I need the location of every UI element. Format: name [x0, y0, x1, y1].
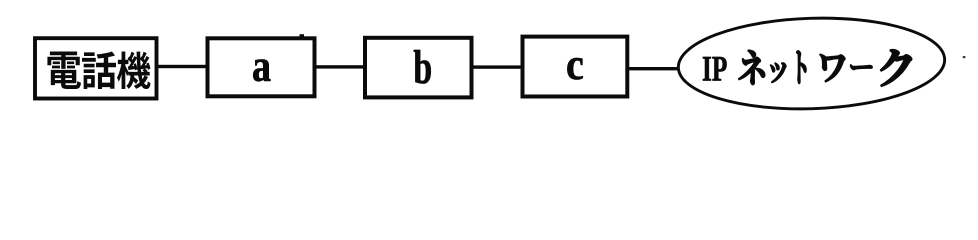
label a: [252, 42, 271, 92]
svg-text:a: a: [252, 42, 271, 92]
scan bump on box a top edge: [300, 34, 305, 37]
wire: telephone to a: [155, 65, 209, 68]
box b: [365, 38, 472, 98]
label c: [566, 40, 584, 90]
svg-text:c: c: [566, 40, 584, 90]
label text IP: [702, 48, 727, 88]
label text katakana long vowel bar of word network: [850, 65, 872, 70]
svg-text:b: b: [413, 40, 432, 93]
label text katakana NE of word network: [739, 50, 765, 84]
svg-text:IP: IP: [702, 48, 727, 88]
box a: [208, 38, 315, 96]
label text katakana small TSU of word network: [770, 63, 786, 83]
ellipse: IP network: [677, 14, 946, 113]
label text kanji DEN (electric) of word denwaki: [47, 51, 81, 89]
box: telephone (denwaki): [35, 38, 157, 98]
label text kanji WA (talk) of word denwaki: [82, 51, 116, 89]
wire: c to IP network cloud: [628, 67, 678, 70]
label text katakana WA of word network: [820, 54, 845, 82]
label b: [413, 40, 432, 93]
label text kanji KI (machine) of word denwaki: [117, 51, 151, 89]
wire: a to b: [315, 65, 365, 68]
wire: b to c: [472, 65, 522, 68]
label text katakana TO of word network: [796, 51, 806, 84]
scan speck near ellipse right: [963, 56, 966, 58]
label text katakana KU of word network: [881, 50, 912, 86]
box c: [523, 37, 628, 97]
